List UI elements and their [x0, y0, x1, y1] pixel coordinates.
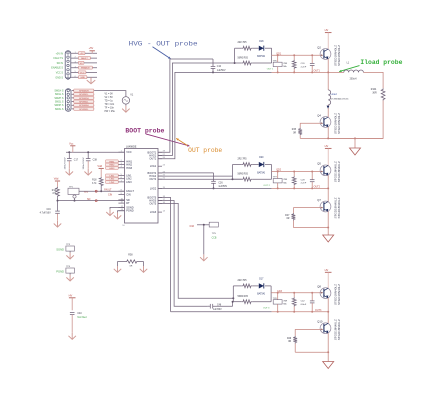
svg-text:HV: HV [69, 293, 73, 297]
svg-text:C40: C40 [77, 313, 82, 315]
wire BOOT2 [158, 172, 214, 174]
svg-text:14: 14 [163, 211, 166, 213]
net label SPWM2H [74, 96, 94, 99]
svg-text:SW1L S: SW1L S [55, 93, 64, 96]
U1 left pin SD [118, 199, 124, 201]
wire J3 pin 5 [71, 72, 97, 74]
capacitor C40 [71, 298, 73, 311]
connector J4 pin 5 circle [67, 104, 69, 106]
net label SPWM1L [74, 93, 94, 96]
power ground (phase1) [350, 148, 361, 155]
svg-text:10: 10 [122, 225, 125, 227]
wire OUT3 run (red section) [272, 311, 329, 313]
svg-text:1uF/50V: 1uF/50V [213, 309, 222, 311]
svg-text:SPWM1H: SPWM1H [79, 91, 89, 93]
U1 left pin VCC [118, 151, 124, 153]
svg-text:HV: HV [325, 268, 329, 272]
wire D16 to TP5 [197, 224, 209, 226]
ground (TP5) [203, 254, 205, 260]
svg-text:C38: C38 [93, 159, 98, 161]
wire OUT3 to Q10 collector [327, 312, 329, 323]
svg-text:Q8: Q8 [317, 285, 321, 289]
svg-text:OUT2: OUT2 [149, 177, 156, 181]
svg-text:C46: C46 [217, 304, 222, 306]
resistor 2R2 7R5 (top branch) [233, 285, 242, 287]
svg-text:BAT54J: BAT54J [257, 171, 265, 174]
svg-text:Iload probe: Iload probe [360, 59, 402, 66]
node HVG1-network [234, 62, 236, 64]
svg-text:Vdd: Vdd [54, 177, 59, 181]
svg-text:R49: R49 [287, 338, 292, 340]
wire gate network right vertical [271, 48, 273, 63]
node OUT1 phase node [327, 71, 329, 73]
svg-text:Q2: Q2 [317, 45, 321, 49]
wire OUT3 feed [158, 203, 233, 298]
connector J4 pin 4 circle [67, 100, 69, 102]
net label LIN3 [106, 180, 119, 183]
svg-text:BOOT probe: BOOT probe [125, 127, 164, 134]
transistor Q2 [320, 49, 331, 60]
svg-text:76R: 76R [283, 63, 287, 65]
power symbol HV (phase2) [325, 147, 332, 149]
test point TP5 box [209, 222, 218, 227]
net label FAULT [78, 57, 90, 60]
svg-text:ENABLE S: ENABLE S [51, 67, 63, 70]
svg-text:FAULT: FAULT [104, 188, 112, 191]
svg-text:PGND: PGND [56, 270, 64, 274]
U1 left pin CIN [118, 194, 124, 196]
wire to power ground (phase3) [327, 352, 329, 361]
svg-text:Lload: Lload [331, 93, 338, 96]
wire J4 pin 5 [72, 104, 95, 106]
svg-text:V1 = 0V: V1 = 0V [105, 93, 114, 95]
svg-text:OUT2: OUT2 [314, 186, 321, 189]
wire SGND [110, 207, 125, 209]
svg-text:PGND: PGND [126, 209, 134, 213]
svg-text:LVG2: LVG2 [150, 186, 157, 190]
wire OUT3 run [171, 311, 272, 313]
net label SPWM3L [74, 107, 94, 110]
resistor R47 0R (gate-emitter) [292, 208, 294, 213]
connector J3 pin 2 circle [67, 56, 69, 58]
node network3 feed [232, 297, 234, 299]
resistor R16 47k [57, 181, 59, 187]
connector J4 pin 1 circle [67, 89, 69, 91]
svg-text:L6498DE: L6498DE [126, 146, 137, 149]
wire HV to Q8 collector [327, 272, 329, 288]
svg-text:56R0 R05: 56R0 R05 [238, 57, 249, 59]
capacitor C42 6.8nF [311, 293, 313, 301]
connector J3 pin 6 circle [67, 73, 69, 75]
svg-text:GND S: GND S [55, 76, 63, 79]
node D16 [203, 224, 205, 226]
svg-text:6.8nF: 6.8nF [301, 304, 307, 306]
svg-text:+5V: +5V [89, 46, 94, 50]
ground (J3) [90, 77, 92, 83]
svg-text:PW = 25u: PW = 25u [105, 111, 116, 113]
svg-text:STGD18N40LZ: STGD18N40LZ [333, 161, 337, 182]
wire Q10 gate [295, 328, 321, 330]
power symbol HV (C40) [69, 297, 76, 299]
connector J4 body [65, 89, 71, 112]
wire OUT2 to Q7 collector [327, 188, 329, 201]
U1 right pin BOOT3 [158, 197, 162, 199]
svg-text:TR = 10n: TR = 10n [105, 104, 115, 106]
net label SD [78, 61, 84, 64]
wire OUT1 to Lload [327, 72, 329, 90]
svg-text:LVG1: LVG1 [150, 164, 157, 168]
capacitor C38 [87, 152, 89, 158]
wire +5V to power bar [91, 51, 93, 54]
ground (R58 left) [117, 266, 119, 272]
wire LVG2 / OUT2 run [158, 187, 272, 189]
net label +5V [78, 52, 85, 55]
svg-text:C42: C42 [301, 301, 306, 303]
svg-text:CIN: CIN [108, 194, 112, 197]
svg-text:Vcc: Vcc [69, 141, 74, 145]
power symbol Vdd (R16) [55, 180, 60, 182]
svg-text:0R: 0R [288, 341, 291, 343]
wire GD3 [271, 292, 321, 294]
svg-text:STGD18N40LZ: STGD18N40LZ [337, 197, 341, 218]
svg-text:Q10: Q10 [317, 320, 323, 324]
U1 right pin LVG1 [158, 165, 162, 167]
svg-text:SD IN: SD IN [57, 62, 64, 65]
wire HVG1 [158, 63, 235, 156]
svg-text:5: 5 [75, 71, 76, 73]
wire GD1 [272, 54, 322, 56]
capacitor C16 [57, 201, 59, 211]
svg-text:OUT3: OUT3 [315, 309, 322, 312]
svg-text:R104: R104 [371, 89, 377, 91]
resistor 56R0 R05 (bottom branch) [233, 301, 242, 303]
U1 right pin OUT3 [158, 202, 162, 204]
gate driver U1 body [125, 149, 159, 224]
svg-text:56k: 56k [283, 66, 287, 68]
wire SPWM1H to source V1 [94, 91, 126, 97]
U1 left pin HIN3 [118, 167, 124, 169]
wire L1 to Rload [363, 72, 383, 88]
node VCC-C38 [87, 151, 89, 153]
U1 right pin BOOT2 [158, 172, 162, 174]
wire J4 pin 1 [72, 90, 95, 92]
svg-text:LIN3: LIN3 [126, 180, 132, 184]
U1 right pin HVG2 [158, 175, 162, 177]
svg-text:SPWM3H: SPWM3H [79, 105, 89, 107]
svg-text:2.2nF: 2.2nF [301, 66, 307, 68]
U1 left pin HIN1 [118, 160, 124, 162]
Lload current arrow [327, 106, 330, 109]
svg-text:BAT54J: BAT54J [257, 55, 265, 58]
svg-text:4.7uH/45A/0.037ohm: 4.7uH/45A/0.037ohm [331, 97, 349, 100]
svg-text:SD: SD [87, 198, 91, 201]
bootstrap capacitor C26 [213, 173, 215, 181]
svg-text:HIN3: HIN3 [126, 166, 132, 170]
svg-text:0R: 0R [286, 218, 289, 220]
svg-text:SPWM2L: SPWM2L [79, 101, 89, 103]
wire to power ground (phase2) [327, 228, 329, 236]
wire R58 left to ground [117, 262, 119, 267]
svg-text:LVG3: LVG3 [150, 210, 157, 214]
wire Q2 emitter to OUT1 [327, 59, 329, 72]
svg-text:76R: 76R [283, 300, 287, 302]
wire PGND [118, 211, 125, 213]
svg-text:R45: R45 [292, 129, 297, 131]
U1 right pin OUT1 [158, 158, 162, 160]
svg-text:36R: 36R [372, 93, 377, 95]
probe arrow (BOOT) [146, 134, 190, 146]
wire Rload to emitter rail [328, 101, 383, 139]
svg-text:R58: R58 [128, 255, 133, 257]
node OUT3 phase node [327, 311, 329, 313]
svg-text:1uF/50V: 1uF/50V [217, 70, 226, 72]
svg-text:TF = 10n: TF = 10n [105, 107, 115, 109]
connector J3 pin 5 circle [67, 69, 69, 71]
svg-text:STGD18N40LZ: STGD18N40LZ [333, 197, 337, 218]
svg-text:STGD18N40LZ: STGD18N40LZ [337, 284, 341, 305]
inductor Lload [328, 90, 330, 105]
svg-text:CIN: CIN [126, 193, 131, 197]
svg-text:2: 2 [75, 57, 76, 59]
svg-text:SD: SD [80, 63, 83, 65]
U1 left pin LIN1 [118, 175, 124, 177]
connector J3 pin 3 circle [67, 60, 69, 62]
net label HIN3 [106, 166, 119, 169]
wire OUT2 run (red section) [272, 187, 329, 189]
svg-text:STGD18N40LZ: STGD18N40LZ [337, 113, 341, 134]
svg-text:BAT54J: BAT54J [257, 293, 265, 296]
wire HVG3 [158, 201, 208, 307]
svg-text:OUT1: OUT1 [314, 69, 321, 72]
svg-text:OUT 2: OUT 2 [263, 185, 270, 187]
test point TP8 box [277, 293, 279, 300]
U1 right pin HVG1 [158, 155, 162, 157]
svg-text:SPWM2H: SPWM2H [79, 98, 89, 100]
svg-text:GND: GND [80, 77, 85, 79]
wire R58 right to ground [143, 262, 145, 267]
svg-text:C28: C28 [301, 180, 306, 182]
transistor Q5 [320, 165, 331, 176]
diode D20 BAT54J [259, 162, 264, 167]
svg-text:6: 6 [75, 76, 76, 78]
U1 right pin LVG2 [158, 187, 162, 189]
wire J3 pin 2 [71, 57, 97, 59]
wire gate network right vertical [270, 286, 272, 302]
svg-text:HV: HV [325, 144, 329, 148]
wire V1 to ground [125, 104, 127, 106]
svg-text:STGD18N40LZ: STGD18N40LZ [333, 113, 337, 134]
svg-text:HIN3: HIN3 [109, 168, 115, 170]
svg-text:SW3L S: SW3L S [55, 108, 64, 111]
node Q4 emitter [327, 137, 329, 139]
svg-text:2R2 7R5: 2R2 7R5 [238, 42, 248, 44]
wire to power ground (phase1) [354, 138, 356, 148]
svg-text:ENABLE: ENABLE [81, 67, 90, 70]
wire Q10 emitter rail [327, 333, 329, 352]
wire Q8 emitter to OUT3 [327, 298, 329, 312]
wire TP1 to SD net [74, 198, 76, 201]
svg-text:HVG - OUT probe: HVG - OUT probe [129, 40, 198, 47]
svg-text:56k: 56k [283, 304, 287, 306]
node network3 bottom [232, 301, 234, 303]
node VCC-C17 [68, 151, 70, 153]
net label HIN1 [106, 160, 119, 163]
wire J3 pin 3 [71, 62, 97, 64]
wire OUT2 feed (bottom branch) [158, 178, 242, 180]
wire FAULT [79, 190, 125, 192]
test point TP3 (SGND) [66, 246, 75, 251]
svg-text:R18: R18 [92, 180, 97, 182]
wire J3 pin 6 [71, 76, 97, 78]
wire gate network right vertical [271, 165, 273, 180]
resistor R18 3.7k [100, 168, 102, 177]
svg-text:56R0 R05: 56R0 R05 [238, 174, 249, 176]
wire BOOT3 [158, 198, 171, 312]
power symbol HV (phase1) [325, 32, 332, 34]
inductor L1 200uH [328, 71, 344, 73]
U1 left pin HIN2 [118, 164, 124, 166]
node SD-R16 [57, 200, 59, 202]
diode D18 BAT54J [259, 46, 264, 51]
probe arrow (HVG-OUT) [153, 47, 171, 59]
svg-text:C20: C20 [301, 63, 306, 65]
net label LIN1 [106, 174, 119, 177]
node Q10 emitter [327, 351, 329, 353]
net label ENABLE [78, 66, 92, 69]
wire HV to Q5 collector [327, 148, 329, 165]
svg-text:C26: C26 [218, 182, 223, 184]
wire OUT1 [158, 72, 272, 158]
wire BOOT1 [158, 59, 213, 152]
node C26-OUT2 [213, 187, 215, 189]
connector J3 pin 7 circle [67, 77, 69, 79]
net label SPWM1H [74, 89, 94, 92]
svg-text:0R: 0R [293, 132, 296, 134]
svg-text:200uH: 200uH [350, 79, 357, 81]
svg-text:OUT probe: OUT probe [188, 147, 222, 154]
wire SD [58, 200, 125, 202]
ground (C38) [87, 169, 89, 175]
svg-text:CCB: CCB [212, 238, 217, 240]
wire Q4 emitter rail [327, 127, 329, 138]
svg-text:4.7uF/16V: 4.7uF/16V [40, 212, 51, 215]
svg-text:SW2H S: SW2H S [54, 97, 64, 100]
connector J3 body [65, 51, 71, 79]
test point TP7 box [277, 172, 279, 179]
junction circle SD [95, 200, 97, 202]
svg-text:56k: 56k [283, 182, 287, 184]
node R18-FAULT [100, 190, 102, 192]
net label SPWM2L [74, 100, 94, 103]
svg-text:STGD18N40LZ: STGD18N40LZ [337, 45, 341, 66]
svg-text:Not fitted: Not fitted [77, 316, 87, 319]
svg-text:HV: HV [325, 28, 329, 32]
svg-text:56R0 R05: 56R0 R05 [238, 296, 249, 298]
wire J4 pin 4 [72, 101, 95, 103]
svg-text:V2 = 5V: V2 = 5V [105, 97, 114, 99]
capacitor C17 [68, 152, 70, 158]
svg-text:SGND: SGND [56, 248, 64, 252]
wire J4 pin 6 [72, 108, 95, 110]
svg-text:2.2nF: 2.2nF [301, 183, 307, 185]
U1 right pin LVG3 [158, 211, 162, 213]
U1 left pin PGND [118, 210, 124, 212]
node network2 left [232, 178, 234, 180]
svg-text:100nF/50V: 100nF/50V [83, 157, 85, 170]
wire gate network left vertical [234, 48, 236, 63]
svg-text:STGD18N40LZ: STGD18N40LZ [333, 45, 337, 66]
U1 right pin OUT2 [158, 178, 162, 180]
VCC rail wire [66, 151, 125, 153]
svg-text:OUT 1: OUT 1 [267, 68, 274, 70]
svg-text:FAULT: FAULT [81, 57, 88, 60]
U1 right pin HVG3 [158, 200, 162, 202]
resistor 56R0 R05 (bottom branch) [235, 62, 242, 64]
svg-text:TP1: TP1 [84, 192, 89, 194]
net label HIN2 [106, 163, 119, 166]
svg-text:3.7k: 3.7k [92, 183, 97, 185]
svg-text:STGD18N40LZ: STGD18N40LZ [333, 284, 337, 305]
net label VCC [78, 71, 86, 74]
svg-text:OUT 3: OUT 3 [263, 307, 270, 309]
power ground (phase2) [323, 235, 334, 242]
ground (SGND) [109, 209, 111, 215]
net label GND [78, 76, 87, 79]
svg-text:VCC S: VCC S [56, 72, 64, 75]
U1 left pin SGND [118, 206, 124, 208]
svg-text:D16: D16 [190, 225, 195, 228]
U1 left pin LIN3 [118, 181, 124, 183]
power symbol +5V [90, 50, 95, 52]
bootstrap capacitor C10 [212, 59, 214, 66]
junction circle FAULT [95, 190, 97, 192]
svg-text:SPWM1L: SPWM1L [79, 94, 89, 96]
svg-text:100uF/50V: 100uF/50V [64, 157, 66, 170]
resistor Rload 36R [381, 88, 385, 100]
svg-text:24: 24 [163, 165, 166, 167]
U1 left pin FAULT [118, 190, 124, 192]
svg-text:2R2 7R5: 2R2 7R5 [238, 159, 248, 161]
wire Q5 emitter to OUT2 [327, 175, 329, 188]
svg-text:Vdd: Vdd [97, 164, 102, 168]
svg-text:3: 3 [75, 62, 76, 64]
wire GD2 [272, 171, 322, 173]
wire Lload to Q4 collector [327, 105, 329, 117]
resistor R58 0R [118, 261, 126, 263]
svg-text:SW3H S: SW3H S [54, 104, 64, 107]
resistor gate-source 56k [293, 55, 295, 60]
svg-text:D20: D20 [259, 157, 264, 159]
svg-text:OUT3: OUT3 [149, 201, 156, 205]
ground (PGND) [117, 213, 119, 219]
resistor 2R2 7R5 (top branch) [235, 47, 242, 49]
wire Q7 gate [293, 207, 321, 209]
svg-text:C10: C10 [217, 66, 222, 68]
svg-text:Q5: Q5 [317, 162, 321, 166]
bootstrap capacitor C46 [209, 304, 211, 309]
diode D17 BAT54J [259, 283, 264, 288]
resistor 56R0 R05 (bottom branch) [233, 178, 242, 180]
wire J4 pin 3 [72, 97, 95, 99]
svg-text:D17: D17 [259, 279, 264, 281]
transistor Q4 [320, 117, 331, 128]
wire HV to Q2 collector [327, 33, 329, 50]
svg-text:SPWM3L: SPWM3L [79, 109, 89, 111]
svg-text:C17: C17 [74, 159, 79, 161]
resistor R49 0R (gate-emitter) [294, 329, 296, 336]
probe arrow (OUT) [176, 138, 187, 145]
svg-text:+5V: +5V [80, 53, 84, 55]
